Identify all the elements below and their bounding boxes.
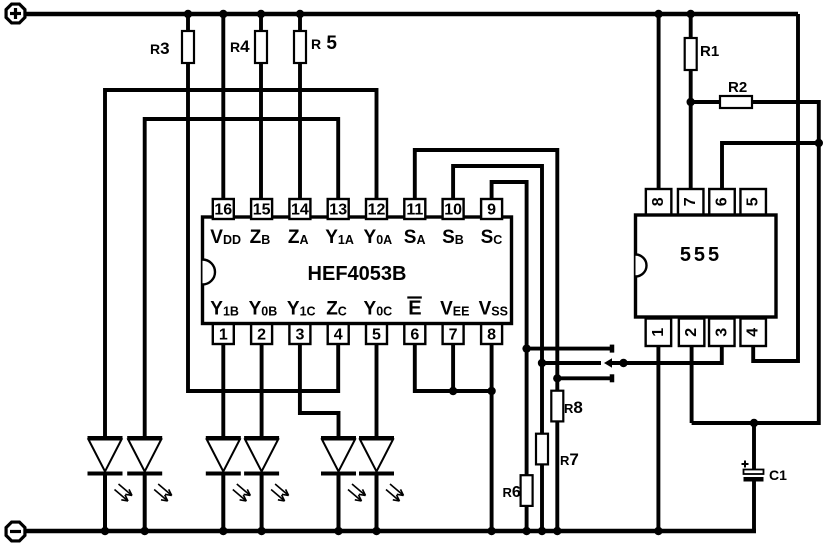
LED D3 <box>206 438 251 501</box>
wire R4 to 4053 pin 15 (Z_B) <box>259 63 263 199</box>
svg-text:R4: R4 <box>230 37 250 56</box>
junction S_A tap <box>553 374 561 382</box>
4053 pin 3 box <box>289 324 310 344</box>
svg-text:12: 12 <box>368 202 386 219</box>
wire R3 to 4053 pin 4 (Z_C) <box>188 63 338 391</box>
svg-text:6: 6 <box>714 197 731 206</box>
resistor R5 <box>294 31 306 63</box>
IC U1 notch <box>203 260 215 285</box>
svg-text:7: 7 <box>449 327 458 344</box>
svg-text:16: 16 <box>214 202 232 219</box>
555 pin 3 box <box>709 319 735 347</box>
wire R8 to 0V rail <box>555 421 559 531</box>
svg-text:C1: C1 <box>769 467 787 483</box>
junction C1 tap <box>750 419 758 427</box>
4053 pin 10 box <box>443 199 464 219</box>
junction 555 pin1 on 0V rail <box>654 527 662 535</box>
junction R8 on 0V rail <box>553 527 561 535</box>
4053 pin 14 box <box>289 199 310 219</box>
junction LED D3 on 0V rail <box>219 527 227 535</box>
wire R5 to 4053 pin 14 (Z_A) <box>298 63 302 199</box>
svg-text:4: 4 <box>745 328 762 337</box>
svg-text:R6: R6 <box>503 484 521 501</box>
capacitor C1 minus plate <box>744 477 764 482</box>
junction dot on output wire <box>619 359 627 367</box>
svg-text:R1: R1 <box>700 43 719 60</box>
wire 555 pin 3 output to arrow <box>612 346 722 363</box>
junction S_B tap <box>538 359 546 367</box>
4053 pin 6 box <box>404 324 425 344</box>
junction R4 top on +V rail <box>257 10 265 18</box>
LED D6 <box>359 438 404 501</box>
wire 4053 pin 7 (V_EE) stub <box>451 344 455 391</box>
4053 pin 1 box <box>213 324 234 344</box>
svg-text:E: E <box>408 298 421 320</box>
svg-text:13: 13 <box>329 202 347 219</box>
555 pin 6 box <box>709 189 735 215</box>
IC U2 notch <box>636 255 647 277</box>
wire LED D6 cathode to 0V rail <box>375 474 379 532</box>
svg-text:4: 4 <box>334 327 343 344</box>
wire +V to R3 <box>186 14 190 31</box>
svg-text:555: 555 <box>680 244 722 266</box>
junction LED D1 on 0V rail <box>101 527 109 535</box>
resistor R8 <box>551 391 563 422</box>
junction pin8 on 0V rail <box>487 527 495 535</box>
wire +V to R1 <box>689 14 693 38</box>
svg-text:R3: R3 <box>150 39 170 58</box>
wire 555 pin 1 to 0V rail <box>656 346 660 531</box>
junction pin16 wire on +V rail <box>219 10 227 18</box>
arrow plug (555 output to S_B) <box>604 358 612 368</box>
wire +V to 555 pin 4 (reset) <box>753 14 798 361</box>
LED D2 <box>127 438 172 501</box>
wire 4053 pin 11 (S_A) to R8 <box>415 150 558 391</box>
svg-text:7: 7 <box>682 197 699 206</box>
wire S_B tap to arrow <box>542 361 601 365</box>
resistor R3 <box>182 31 194 63</box>
junction R5 top on +V rail <box>296 10 304 18</box>
wire +V to 555 pin 8 <box>657 14 661 189</box>
wire 4053 pin 13 (Y_1A) to LED2 <box>145 119 339 438</box>
junction LED D4 on 0V rail <box>257 527 265 535</box>
wire S_A open tap <box>557 376 610 380</box>
junction LED D5 on 0V rail <box>334 527 342 535</box>
555 pin 2 box <box>679 319 705 347</box>
op IC U1 HEF4053B body <box>203 217 512 324</box>
wire +V to R5 <box>298 14 302 31</box>
svg-text:8: 8 <box>650 197 667 206</box>
wire 4053 pin 10 (S_B) to R7 <box>453 166 542 434</box>
wire LED D3 cathode to 0V rail <box>221 474 225 532</box>
wire 4053 pin 5 (Y_0C) to LED6 <box>375 344 379 438</box>
S_A tap end cap <box>610 374 615 382</box>
junction pin6 wire on right vertical <box>815 139 823 147</box>
junction LED D2 on 0V rail <box>141 527 149 535</box>
junction LED D6 on 0V rail <box>372 527 380 535</box>
wire 4053 pin 12 (Y_0A) to LED1 <box>105 90 377 438</box>
LED D4 <box>244 438 289 501</box>
junction 555 pin 8 on +V rail <box>654 10 662 18</box>
555 pin 5 box <box>740 189 766 215</box>
svg-text:6: 6 <box>410 327 419 344</box>
wire R6 to 0V rail <box>525 506 529 531</box>
svg-text:15: 15 <box>253 202 271 219</box>
4053 pin 4 box <box>328 324 349 344</box>
svg-text:1: 1 <box>219 327 228 344</box>
4053 pin 9 box <box>481 199 502 219</box>
junction R6 on 0V rail <box>522 527 530 535</box>
svg-text:5: 5 <box>745 197 762 206</box>
555 pin 4 box <box>740 319 766 347</box>
svg-text:R 5: R 5 <box>311 33 337 54</box>
LED D5 <box>321 438 366 501</box>
wire 4053 pin 8 (V_SS) to 0V rail <box>490 344 494 531</box>
svg-text:1: 1 <box>650 328 667 337</box>
wire 4053 pin 1 (Y_1B) to LED3 <box>221 344 225 438</box>
4053 pin 8 box <box>481 324 502 344</box>
svg-text:3: 3 <box>295 327 304 344</box>
wire 4053 pin 9 (S_C) to R6 <box>492 182 527 475</box>
svg-text:10: 10 <box>444 202 462 219</box>
wire 0V bottom rail <box>25 529 756 533</box>
junction pin7 on tie <box>449 387 457 395</box>
4053 pin 11 box <box>404 199 425 219</box>
junction R1/R2/pin7 <box>687 98 695 106</box>
terminal +V (plus) <box>6 4 25 23</box>
wire 555 pin 6 to pin2/R2 node <box>722 143 819 189</box>
svg-text:R7: R7 <box>560 450 579 469</box>
wire S_C open tap <box>527 347 610 351</box>
4053 pin 12 box <box>366 199 387 219</box>
svg-text:HEF4053B: HEF4053B <box>308 263 407 285</box>
junction pin8 tie <box>487 387 495 395</box>
wire LED D5 cathode to 0V rail <box>337 474 341 532</box>
4053 pin 13 box <box>328 199 349 219</box>
wire LED D4 cathode to 0V rail <box>260 474 264 532</box>
wire 4053 pin 2 (Y_0B) to LED4 <box>260 344 264 438</box>
resistor R2 <box>720 96 752 108</box>
LED D1 <box>88 438 133 501</box>
op IC U2 555 body <box>636 215 777 317</box>
wire LED D1 cathode to 0V rail <box>103 474 107 532</box>
junction R7 on 0V rail <box>538 527 546 535</box>
wire R7 to 0V rail <box>540 464 544 531</box>
svg-text:R8: R8 <box>564 398 583 417</box>
svg-text:14: 14 <box>291 202 309 219</box>
wire 555 pin 2 stub <box>690 346 694 423</box>
4053 pin 2 box <box>251 324 272 344</box>
4053 pin 5 box <box>366 324 387 344</box>
label C1 plus sign <box>742 463 749 465</box>
wire 4053 pin 3 (Y_1C) to LED5 <box>300 344 339 438</box>
wire +V to R4 <box>259 14 263 31</box>
4053 pin 6 label E-bar <box>407 298 422 320</box>
svg-text:2: 2 <box>683 328 700 337</box>
svg-text:8: 8 <box>487 327 496 344</box>
resistor R1 <box>685 38 697 70</box>
S_C tap end cap <box>610 345 615 353</box>
resistor R4 <box>255 31 267 63</box>
wire +V top rail <box>25 12 798 16</box>
wire +V to 4053 pin 16 (V_DD) <box>221 14 225 199</box>
resistor R6 <box>521 475 533 506</box>
4053 pin 16 box <box>213 199 234 219</box>
svg-text:2: 2 <box>257 327 266 344</box>
wire junction to R2 <box>691 100 720 104</box>
terminal 0V (minus) <box>6 522 25 541</box>
resistor R7 <box>536 434 548 465</box>
junction S_C tap <box>522 344 530 352</box>
svg-text:11: 11 <box>406 202 423 219</box>
wire R2 to right vertical / 555 pin 2 <box>692 102 819 423</box>
wire R1 to 555 pin 7 <box>689 70 693 189</box>
wire LED D2 cathode to 0V rail <box>143 474 147 532</box>
svg-text:5: 5 <box>372 327 381 344</box>
svg-text:3: 3 <box>713 328 730 337</box>
4053 pin 15 box <box>251 199 272 219</box>
555 pin 7 box <box>678 189 704 215</box>
capacitor C1 plus plate <box>744 470 764 475</box>
junction R1 top on +V rail <box>687 10 695 18</box>
4053 pin 7 box <box>443 324 464 344</box>
wire C1 to 0V rail <box>752 482 756 532</box>
555 pin 8 box <box>646 189 672 215</box>
svg-text:R2: R2 <box>728 79 747 96</box>
555 pin 1 box <box>646 319 672 347</box>
wire 4053 pin 6 (E) to pin 8 tie <box>415 344 492 391</box>
svg-text:9: 9 <box>487 202 496 219</box>
wire to C1 <box>752 423 756 470</box>
junction R3 top on +V rail <box>184 10 192 18</box>
